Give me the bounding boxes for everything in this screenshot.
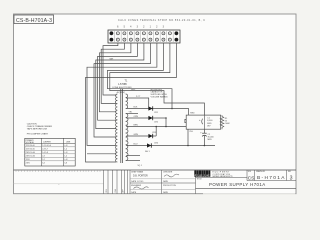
svg-text:OHM: OHM xyxy=(225,123,230,125)
wire: TB1 lug 4 down-left nest to T1 primary tap 3 xyxy=(99,43,130,112)
note text: mounting capacitor note xyxy=(151,89,168,99)
transformer T1 secondary winding (upper) xyxy=(126,94,128,109)
svg-text:2-3 6-7: 2-3 6-7 xyxy=(42,149,48,151)
capacitor C2 35,000 MFD xyxy=(200,129,214,146)
svg-text:230V 50-60: 230V 50-60 xyxy=(26,156,35,158)
transformer T1 label: T1 1-5768B FONE ELECTRONS xyxy=(113,80,133,89)
title block frame top line xyxy=(14,169,297,171)
svg-text:TITLE: TITLE xyxy=(197,179,203,181)
transformer T1 core xyxy=(121,89,123,164)
wire: lower secondary bottom tap stub xyxy=(126,160,140,162)
digital logo xyxy=(194,171,210,177)
svg-text:1-5768B: 1-5768B xyxy=(118,84,127,86)
svg-text:DATE: DATE xyxy=(131,191,137,194)
terminal strip TB1 body xyxy=(108,30,180,43)
svg-text:BRN: BRN xyxy=(134,125,139,127)
svg-text:PRI JUMPER CHART: PRI JUMPER CHART xyxy=(27,132,49,135)
wire + diode CR4: tap BLU = -DC bottom rail xyxy=(126,142,215,147)
capacitor C1 8,500 MFD (can outline) xyxy=(186,115,221,129)
svg-text:VOLUME RATING: VOLUME RATING xyxy=(151,96,168,99)
svg-text:D.B. PORTER: D.B. PORTER xyxy=(133,176,148,178)
svg-text:TAPS BEFORE USE: TAPS BEFORE USE xyxy=(27,128,48,131)
svg-text:1-4: 1-4 xyxy=(64,156,67,158)
title block: title cell POWER SUPPLY H701A xyxy=(196,179,297,189)
terminal strip TB1 terminals (filled = end lugs) xyxy=(110,31,179,41)
terminal strip TB1 pin numbers xyxy=(117,27,165,29)
drawing number label box CS-B-H701A-3 xyxy=(14,15,54,24)
wire: TB1 lug 7 down-left nest to T1 primary tap 6 xyxy=(94,43,150,137)
svg-text:DRAFTSMAN: DRAFTSMAN xyxy=(131,171,143,174)
bus A: CR2 output down to E2 wire xyxy=(165,118,167,127)
svg-text:RED: RED xyxy=(190,113,195,115)
svg-text:CHECK TRANSFORMER: CHECK TRANSFORMER xyxy=(27,125,53,128)
svg-text:t: t xyxy=(204,173,205,177)
title block: size/number/rev cells xyxy=(196,170,297,181)
svg-text:1-4 5-8: 1-4 5-8 xyxy=(42,152,48,154)
svg-text:RED: RED xyxy=(131,89,136,91)
wire W1: TB1 lug 9 wrap around T1 label to CR1 node xyxy=(108,43,173,109)
title block: draftsman cell xyxy=(131,171,148,183)
wire: TB1 lug 2 down-left nest to T1 primary tap 1 xyxy=(103,43,118,95)
svg-text:POWER SUPPLY H701A: POWER SUPPLY H701A xyxy=(209,182,266,187)
svg-text:1-2,3-4,5-6: 1-2,3-4,5-6 xyxy=(42,145,51,147)
svg-text:CALC JONES TERMINAL STRIP NO.5: CALC JONES TERMINAL STRIP NO.554-20-01-0… xyxy=(118,19,205,22)
svg-text:DATE: DATE xyxy=(163,191,169,194)
svg-text:CS: CS xyxy=(248,175,256,181)
table: primary tap jumper chart xyxy=(25,138,75,166)
revision strip ruler ticks xyxy=(14,170,104,187)
wire: TB1 lug 5 down-left nest to T1 primary tap 4 xyxy=(98,43,138,120)
wire: TB1 lug 9 down-left nest to T1 primary tap 8 xyxy=(86,43,177,162)
wire: lower secondary tap YEL stub xyxy=(126,111,138,113)
drawing border frame xyxy=(14,14,297,194)
svg-text:B-H701A: B-H701A xyxy=(257,175,285,181)
svg-text:CAUTION: CAUTION xyxy=(27,123,37,126)
svg-text:115V 50-60: 115V 50-60 xyxy=(26,145,35,147)
wire + diode CR2: tap ORN to junction bus A xyxy=(126,116,167,124)
svg-text:BLU: BLU xyxy=(134,144,138,146)
resistor R1 25 OHM across C1 xyxy=(220,115,230,129)
svg-text:WH: WH xyxy=(110,59,114,61)
svg-text:5-8: 5-8 xyxy=(64,163,67,165)
title block cell dividers xyxy=(130,170,196,194)
svg-text:BLK: BLK xyxy=(134,107,138,109)
wire: primary tap 8 jumper step xyxy=(87,153,116,155)
svg-text:REV: REV xyxy=(288,171,291,173)
wire W2: TB1 lug 10 wrap around T1 label to output block E1 (RED) xyxy=(110,43,205,115)
svg-text:PRODUCTION: PRODUCTION xyxy=(163,185,176,187)
svg-text:CAPACITOR: CAPACITOR xyxy=(151,91,163,94)
svg-text:JUMPER: JUMPER xyxy=(43,141,51,143)
wire + diode CR1: tap BLK to output block E1 xyxy=(126,106,188,115)
svg-text:MFD: MFD xyxy=(208,139,213,141)
wire: upper secondary center tap 2 CT feeding CR1 xyxy=(126,96,149,108)
title block approval narrow columns xyxy=(104,170,131,194)
bus B: CR3 output up to E2 wire xyxy=(155,126,157,136)
svg-text:SIZE: SIZE xyxy=(248,171,251,173)
wire: TB1 lug 3 down-left nest to T1 primary tap 2 xyxy=(101,43,124,103)
border fade at bottom-right (scan artifact) xyxy=(203,193,295,195)
transformer T1 primary winding xyxy=(115,94,117,162)
transformer T1 secondary winding (lower) xyxy=(126,114,128,161)
svg-text:CORPORATION: CORPORATION xyxy=(213,173,231,176)
svg-text:GRN: GRN xyxy=(134,134,139,136)
svg-text:1-4: 1-4 xyxy=(64,149,67,151)
digital equipment corporation text xyxy=(213,171,233,178)
svg-text:ENGINEER: ENGINEER xyxy=(131,185,142,187)
svg-text:DATE: DATE xyxy=(163,180,169,183)
svg-text:CHECKER: CHECKER xyxy=(163,172,173,174)
wire: C1 bottom left down to -DC rail xyxy=(187,129,189,146)
title block: engineer cell xyxy=(131,185,148,194)
svg-text:VOLTAGE: VOLTAGE xyxy=(26,141,35,144)
svg-text:DATE 1-27-65: DATE 1-27-65 xyxy=(131,180,143,183)
wire + diode CR3: tap GRN up to E2 wire xyxy=(126,132,157,138)
wire: tap BRN to output block E2 xyxy=(126,125,186,127)
svg-text:CS-B-H701A-3: CS-B-H701A-3 xyxy=(16,18,52,24)
svg-text:LINE: LINE xyxy=(66,141,71,143)
svg-text:230V 50-60: 230V 50-60 xyxy=(26,152,35,154)
svg-text:ORN: ORN xyxy=(134,116,139,118)
wire: lower secondary tap stub xyxy=(126,155,140,157)
wire: TB1 lug 6 down-left nest to T1 primary tap 5 xyxy=(96,43,144,129)
svg-text:1-2: 1-2 xyxy=(42,159,45,161)
C1 left terminal notch xyxy=(185,119,186,122)
svg-text:3: 3 xyxy=(290,175,293,181)
note: caution transformer taps xyxy=(27,123,53,136)
title block: checker cell xyxy=(163,172,179,183)
svg-text:2-3: 2-3 xyxy=(42,156,45,158)
svg-text:115V 50-60: 115V 50-60 xyxy=(26,149,35,151)
svg-text:3-4: 3-4 xyxy=(42,163,45,165)
title block: production cell xyxy=(163,185,176,194)
wire: TB1 lug 8 down-left nest to T1 primary tap 7 xyxy=(87,43,157,145)
